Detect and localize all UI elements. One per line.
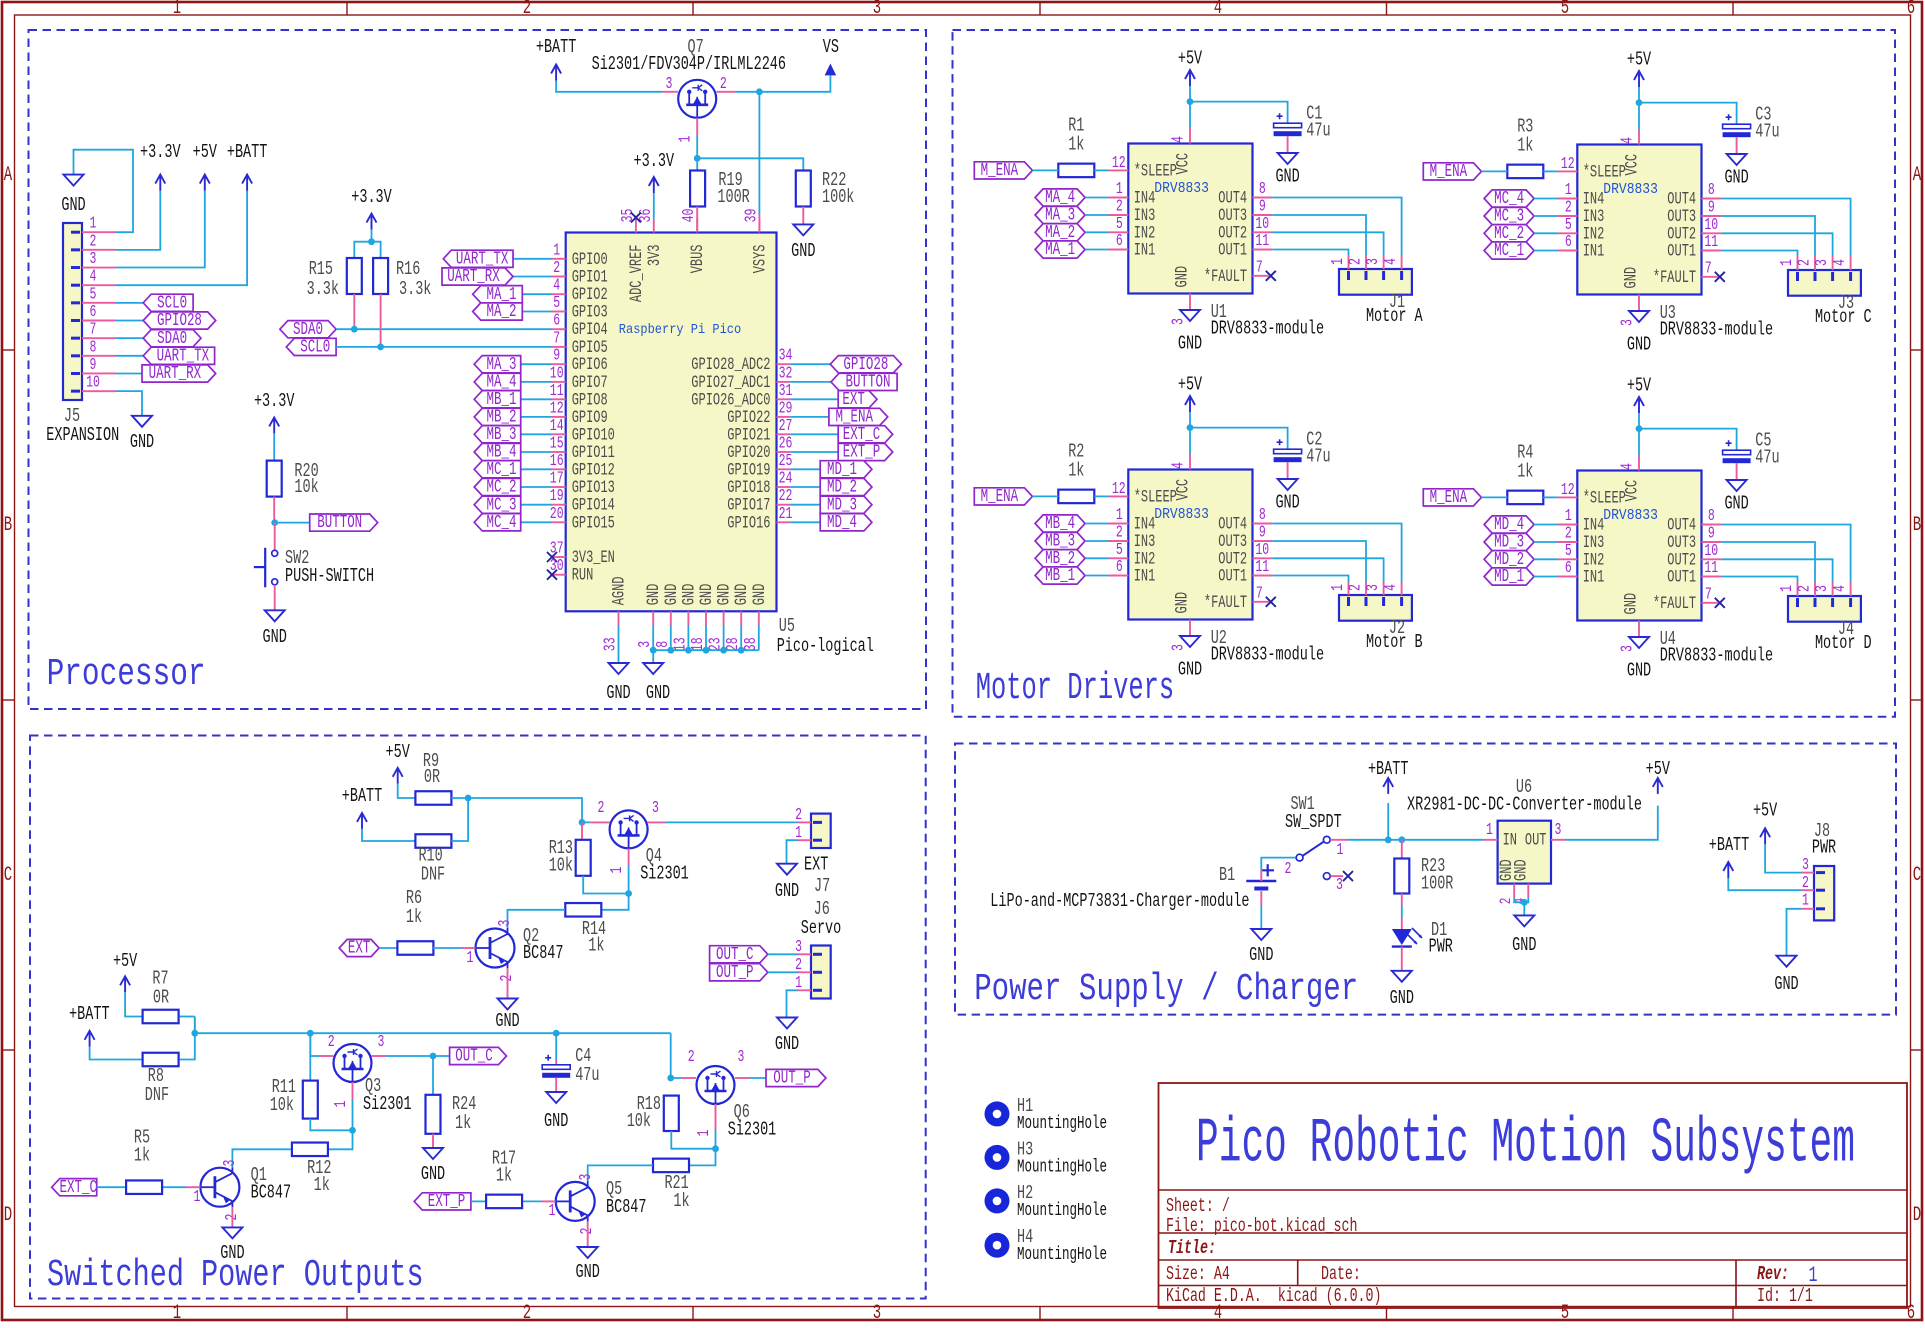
svg-text:+5V: +5V [386,741,410,763]
label M_ENA (U5 right) [790,416,829,418]
svg-text:3: 3 [652,799,659,818]
junction Q6 gate node [712,1145,719,1152]
svg-text:1k: 1k [314,1174,330,1196]
svg-text:GPIO21: GPIO21 [727,426,770,445]
svg-text:4: 4 [90,268,97,287]
pin *FAULT (U4) no-connect [1702,602,1718,604]
svg-text:RUN: RUN [572,567,594,586]
svg-text:2: 2 [523,1302,531,1323]
label OUT_P (J6 pin2) [710,964,768,981]
svg-text:1: 1 [677,136,696,143]
svg-text:IN2: IN2 [1134,550,1156,569]
junction (Q3 branch) [307,1030,314,1037]
label MA_4 (U5 left) [521,381,552,383]
svg-text:MC_4: MC_4 [486,513,516,533]
svg-text:MountingHole: MountingHole [1017,1157,1107,1177]
power +5V (R9) [393,768,403,784]
resistor R8 DNF [143,1053,179,1067]
resistor R7 0R [143,1010,179,1024]
svg-text:100R: 100R [1421,873,1454,895]
connector J7 EXT [811,814,831,848]
junction BUTTON node [271,519,278,526]
svg-text:9: 9 [553,347,560,366]
svg-text:DRV8833: DRV8833 [1603,508,1658,524]
ground (U1) [1180,310,1200,321]
svg-text:GPIO19: GPIO19 [727,461,770,480]
resistor R22 [796,171,811,207]
label SDA0 [280,321,336,338]
svg-text:J7: J7 [814,875,830,897]
svg-text:GPIO4: GPIO4 [572,321,608,340]
power +3.3V (pin 36) [649,177,659,193]
IC U2 DRV8833-module [1128,470,1252,620]
svg-text:39: 39 [742,209,761,223]
junction R23 [1398,836,1405,843]
svg-text:2: 2 [1565,199,1572,218]
svg-text:OUT3: OUT3 [1218,533,1247,552]
svg-text:GPIO20: GPIO20 [727,444,770,463]
svg-text:2: 2 [1347,584,1366,591]
svg-text:3: 3 [496,920,515,927]
wire R20 to node [273,497,275,523]
svg-text:11: 11 [1255,558,1269,577]
svg-text:EXT: EXT [804,854,828,876]
wires U1 outputs to J1 [1272,198,1401,256]
svg-text:M_ENA: M_ENA [981,161,1019,181]
svg-text:GND: GND [130,431,154,453]
svg-text:GND: GND [220,1242,244,1264]
resistor R19 [696,158,698,170]
svg-text:OUT_C: OUT_C [716,945,754,965]
svg-text:8: 8 [1708,507,1715,526]
svg-text:VS: VS [823,36,839,58]
svg-text:3: 3 [1813,585,1832,592]
svg-text:GPIO13: GPIO13 [572,479,615,498]
svg-text:1: 1 [332,1101,351,1108]
svg-text:31: 31 [779,382,793,401]
svg-text:Pico Robotic Motion Subsystem: Pico Robotic Motion Subsystem [1196,1109,1855,1180]
svg-text:4: 4 [1618,463,1637,470]
junction [1636,425,1643,432]
label MA_3 (U1 IN3) [1035,206,1085,223]
wire R22 to GND [802,207,804,225]
section box: Processor [29,30,927,709]
label M_ENA (U4) [1423,489,1481,506]
svg-text:2: 2 [328,1033,335,1052]
junction [1187,424,1194,431]
svg-text:Motor Drivers: Motor Drivers [976,668,1174,710]
svg-text:3: 3 [1169,644,1188,651]
svg-text:GND: GND [1724,493,1748,515]
capacitor C5 47u [1639,429,1737,450]
wire R15 to SDA0 net [353,294,355,329]
label MA_1 (U1 IN1) [1035,241,1085,258]
svg-text:IN1: IN1 [1134,568,1156,587]
svg-text:*FAULT: *FAULT [1204,594,1247,613]
svg-text:OUT_P: OUT_P [773,1069,811,1089]
section box: Motor Drivers [953,30,1896,717]
svg-text:47u: 47u [575,1064,599,1086]
title block [1159,1083,1908,1308]
power +5V (U6) [1653,778,1663,794]
svg-text:9: 9 [90,356,97,375]
svg-text:3: 3 [90,250,97,269]
transistor Q3 Si2301 [334,1044,372,1082]
svg-text:XR2981-DC-DC-Converter-module: XR2981-DC-DC-Converter-module [1407,794,1642,816]
wire Q7 gate node [696,118,698,135]
svg-text:10k: 10k [549,855,573,877]
resistor R10 DNF [415,834,451,848]
svg-text:6: 6 [1116,558,1123,577]
svg-text:3V3_EN: 3V3_EN [572,549,615,568]
svg-text:BUTTON: BUTTON [317,513,362,533]
svg-text:GPIO11: GPIO11 [572,444,615,463]
label SCL0 [286,338,336,355]
ground (U3) [1629,311,1649,322]
power +5V (U1) [1189,86,1191,128]
label MB_1 (U2 IN1) [1035,567,1085,584]
svg-text:DNF: DNF [421,864,445,886]
svg-text:4: 4 [1214,0,1222,20]
svg-text:VCC: VCC [1175,479,1194,501]
ground (U5 GND pins) [643,663,663,674]
svg-text:+3.3V: +3.3V [254,390,295,412]
svg-text:DNF: DNF [145,1084,169,1106]
ground (J5 pin10) [132,416,152,427]
power +5V (U2) [1189,412,1191,454]
U5 right pins [777,363,791,365]
svg-text:LiPo-and-MCP73831-Charger-modu: LiPo-and-MCP73831-Charger-module [990,890,1249,912]
svg-text:GND: GND [680,584,699,606]
svg-text:Motor C: Motor C [1815,306,1872,328]
svg-text:GND: GND [576,1261,600,1283]
IC U1 DRV8833-module [1128,144,1252,294]
svg-text:47u: 47u [1306,446,1330,468]
junction [465,795,472,802]
wire pin1 to GND [74,150,134,233]
label MD_4 (U4 IN4) [1484,516,1534,533]
label SCL0 (J5 pin5) [116,302,144,304]
wire J8 pin1 to GND [1801,908,1814,910]
svg-text:4: 4 [1831,585,1850,592]
svg-text:GND: GND [698,584,717,606]
svg-text:GND: GND [495,1010,519,1032]
svg-text:6: 6 [1116,232,1123,251]
wire R24 to GND [432,1134,434,1148]
svg-text:3: 3 [378,1033,385,1052]
svg-text:1: 1 [1329,584,1348,591]
svg-text:6: 6 [90,303,97,322]
svg-text:7: 7 [1256,258,1263,277]
ground (J7) [777,864,797,875]
wire J6 pin1 to GND [798,989,811,991]
svg-text:3: 3 [1813,259,1832,266]
mounting hole H1 [985,1101,1010,1126]
svg-text:GND: GND [1249,944,1273,966]
svg-text:10: 10 [550,364,564,383]
power +5V (R7) [120,976,130,992]
resistor R4 1k [1507,491,1543,505]
label OUT_P [766,1069,826,1086]
svg-text:3: 3 [221,1160,240,1167]
svg-text:11: 11 [1704,233,1718,252]
svg-text:1: 1 [194,1188,201,1207]
svg-text:GND: GND [733,584,752,606]
svg-text:4: 4 [1382,584,1401,591]
label MC_3 (U3 IN3) [1484,207,1534,224]
ground (AGND) [609,663,629,674]
svg-text:MC_1: MC_1 [1494,241,1524,261]
no-connect ADC_VREF [631,213,641,223]
svg-text:GPIO26_ADC0: GPIO26_ADC0 [691,391,770,410]
label MB_2 (U5 left) [521,416,552,418]
U5 top pins [635,219,637,233]
svg-text:GPIO6: GPIO6 [572,356,608,375]
svg-text:11: 11 [1704,559,1718,578]
label EXT_P (U5 right) [790,451,838,453]
svg-text:IN3: IN3 [1134,207,1156,226]
svg-text:2: 2 [90,232,97,251]
GND bus of U5 [652,625,654,650]
label MB_1 (U5 left) [521,398,552,400]
svg-text:DRV8833-module: DRV8833-module [1660,319,1773,341]
svg-text:GND: GND [1513,859,1532,881]
svg-text:MountingHole: MountingHole [1017,1245,1107,1265]
svg-text:47u: 47u [1306,120,1330,142]
wire to R16 [372,242,381,258]
svg-text:PWR: PWR [1429,936,1453,958]
junction [351,326,358,333]
label EXT (Q2 base) [339,939,379,956]
svg-text:25: 25 [779,452,793,471]
svg-text:GPIO22: GPIO22 [727,409,770,428]
svg-text:PUSH-SWITCH: PUSH-SWITCH [285,565,374,587]
wire R5 to Q1 [163,1186,186,1188]
svg-text:1: 1 [173,1302,181,1323]
wire R17 to Q5 [523,1200,541,1202]
svg-text:1: 1 [467,949,474,968]
svg-text:1: 1 [695,1130,714,1137]
svg-text:6: 6 [1907,0,1915,20]
svg-text:+BATT: +BATT [1368,758,1409,780]
svg-text:5: 5 [553,294,560,313]
svg-text:MA_2: MA_2 [487,302,517,322]
svg-text:5: 5 [1116,215,1123,234]
wires U3 outputs to J3 [1721,199,1850,257]
svg-text:2: 2 [1347,258,1366,265]
wire R19 to VBUS [696,207,698,233]
svg-text:1: 1 [90,215,97,234]
wire battery to SW1 [1260,870,1262,881]
svg-text:OUT3: OUT3 [1218,207,1247,226]
svg-text:9: 9 [1259,198,1266,217]
svg-text:GND: GND [663,584,682,606]
svg-text:1: 1 [1486,821,1493,840]
wire R18 to gate node [671,1131,715,1149]
svg-text:+3.3V: +3.3V [351,186,392,208]
svg-text:DRV8833-module: DRV8833-module [1211,318,1324,340]
wires U2 outputs to J2 [1272,524,1401,582]
svg-text:+BATT: +BATT [342,785,383,807]
svg-text:3V3: 3V3 [646,245,665,267]
svg-text:32: 32 [779,364,793,383]
IC U4 DRV8833-module [1577,471,1701,621]
svg-text:8: 8 [1708,181,1715,200]
svg-text:+3.3V: +3.3V [140,141,181,163]
svg-text:2: 2 [523,0,531,20]
U5 pins 3V3_EN and RUN (no connect) [552,556,566,558]
svg-text:12: 12 [550,399,564,418]
svg-text:Power Supply / Charger: Power Supply / Charger [974,969,1358,1011]
svg-text:7: 7 [1705,585,1712,604]
svg-text:1: 1 [1329,258,1348,265]
svg-text:Pico-logical: Pico-logical [777,635,874,657]
svg-text:IN4: IN4 [1583,517,1605,536]
svg-text:1: 1 [1116,180,1123,199]
label M_ENA (U1) [974,162,1032,179]
power +BATT (J5 pin4) [116,191,248,286]
svg-text:29: 29 [779,399,793,418]
svg-text:3: 3 [873,0,881,20]
svg-text:2: 2 [553,259,560,278]
section box: Switched Power Outputs [30,736,926,1299]
svg-text:M_ENA: M_ENA [1430,488,1468,508]
power +5V (J5 pin3) [116,191,205,268]
svg-text:3.3k: 3.3k [399,278,431,300]
transistor Q4 Si2301 [610,810,648,848]
connector J1 Motor A [1339,269,1412,295]
svg-text:DRV8833: DRV8833 [1154,181,1209,197]
LED D1 PWR [1401,894,1403,906]
svg-text:10k: 10k [627,1110,651,1132]
svg-text:100R: 100R [717,186,750,208]
svg-text:Id: 1/1: Id: 1/1 [1757,1285,1813,1307]
svg-text:GND: GND [1275,492,1299,514]
wire R11 to gate node [310,1119,352,1131]
svg-text:1k: 1k [673,1190,689,1212]
capacitor C4 47u [555,1033,557,1060]
svg-text:GPIO0: GPIO0 [572,251,608,270]
svg-text:+5V: +5V [1627,49,1651,71]
resistor R18 10k [664,1096,679,1131]
svg-text:8: 8 [1259,506,1266,525]
junction Q3 gate node [349,1127,356,1134]
resistor R14 1k [602,894,629,910]
svg-text:4: 4 [553,277,560,296]
svg-text:IN2: IN2 [1583,225,1605,244]
svg-text:C: C [4,864,12,887]
wire J7 pin1 to GND [787,840,799,864]
svg-text:7: 7 [1256,584,1263,603]
svg-text:Size: A4: Size: A4 [1166,1263,1230,1285]
svg-text:File: pico-bot.kicad_sch: File: pico-bot.kicad_sch [1166,1215,1358,1237]
capacitor C2 47u [1190,428,1288,449]
ground (U4) [1629,637,1649,648]
svg-text:1: 1 [1565,507,1572,526]
svg-text:10: 10 [1255,215,1269,234]
svg-text:IN2: IN2 [1134,224,1156,243]
svg-text:OUT4: OUT4 [1667,517,1696,536]
svg-text:1: 1 [1778,585,1797,592]
wire bus to Q6 source [671,1033,682,1078]
connector J3 Motor C [1788,270,1861,296]
label MB_3 (U2 IN3) [1035,532,1085,549]
wire pin10 to GND [116,391,143,416]
junction gate node [625,890,632,897]
wire R21 to Q5 collector [588,1165,653,1182]
svg-text:OUT4: OUT4 [1218,516,1247,535]
svg-text:Motor B: Motor B [1366,631,1423,653]
svg-text:6: 6 [1565,233,1572,252]
svg-text:Motor D: Motor D [1815,632,1872,654]
wire Q6 gate [715,1104,717,1129]
wire to VSYS pin [758,92,760,213]
ground (D1) [1392,971,1412,982]
power +BATT (Q7) [551,65,561,81]
svg-text:GND: GND [775,1033,799,1055]
svg-text:26: 26 [779,435,793,454]
wire to R15 [354,242,371,258]
pin *FAULT (U1) no-connect [1253,275,1269,277]
svg-text:5: 5 [90,285,97,304]
power +5V (J8) [1760,828,1770,844]
label MC_1 (U5 left) [521,468,552,470]
svg-text:GND: GND [1622,267,1641,289]
ground (B1) [1251,929,1271,940]
svg-text:4: 4 [1169,136,1188,143]
power +3.3V (J5 pin2) [116,191,161,250]
svg-text:R15: R15 [309,258,333,280]
wire D1 to GND [1401,947,1403,971]
svg-text:1k: 1k [1517,135,1533,157]
label MC_2 (U3 IN2) [1484,225,1534,242]
svg-text:3: 3 [1364,584,1383,591]
svg-text:100k: 100k [822,186,854,208]
svg-text:1: 1 [1778,259,1797,266]
svg-text:IN4: IN4 [1583,191,1605,210]
svg-text:IN2: IN2 [1583,551,1605,570]
label EXT_C (U5 right) [790,433,838,435]
svg-text:KiCad E.D.A. kicad (6.0.0): KiCad E.D.A. kicad (6.0.0) [1166,1285,1382,1307]
svg-text:GND: GND [1512,934,1536,956]
resistor R16 [373,258,388,294]
svg-text:IN3: IN3 [1583,534,1605,553]
ground (C2) [1278,479,1298,490]
svg-text:OUT: OUT [1525,831,1547,850]
svg-text:Processor: Processor [47,654,206,696]
label MC_3 (U5 left) [521,504,552,506]
wire +BATT to Q7 [556,81,662,92]
svg-text:GPIO17: GPIO17 [727,497,770,516]
svg-text:GND: GND [1178,659,1202,681]
svg-text:Rev:: Rev: [1757,1263,1789,1285]
wire Q1 emitter to GND [231,1207,233,1227]
svg-text:OUT2: OUT2 [1667,225,1696,244]
svg-text:MA_1: MA_1 [1045,240,1075,260]
transistor Q1 BC847 [200,1168,239,1207]
svg-text:UART_RX: UART_RX [149,364,202,384]
label MC_4 (U5 left) [521,521,552,523]
svg-text:1k: 1k [1068,460,1084,482]
svg-text:C: C [1913,864,1921,887]
svg-text:VCC: VCC [1624,480,1643,502]
svg-text:GPIO16: GPIO16 [727,514,770,533]
svg-text:3: 3 [738,1048,745,1067]
svg-text:OUT4: OUT4 [1218,190,1247,209]
transistor Q2 BC847 [476,929,515,968]
svg-text:MB_1: MB_1 [1045,566,1075,586]
svg-text:OUT1: OUT1 [1667,243,1696,262]
